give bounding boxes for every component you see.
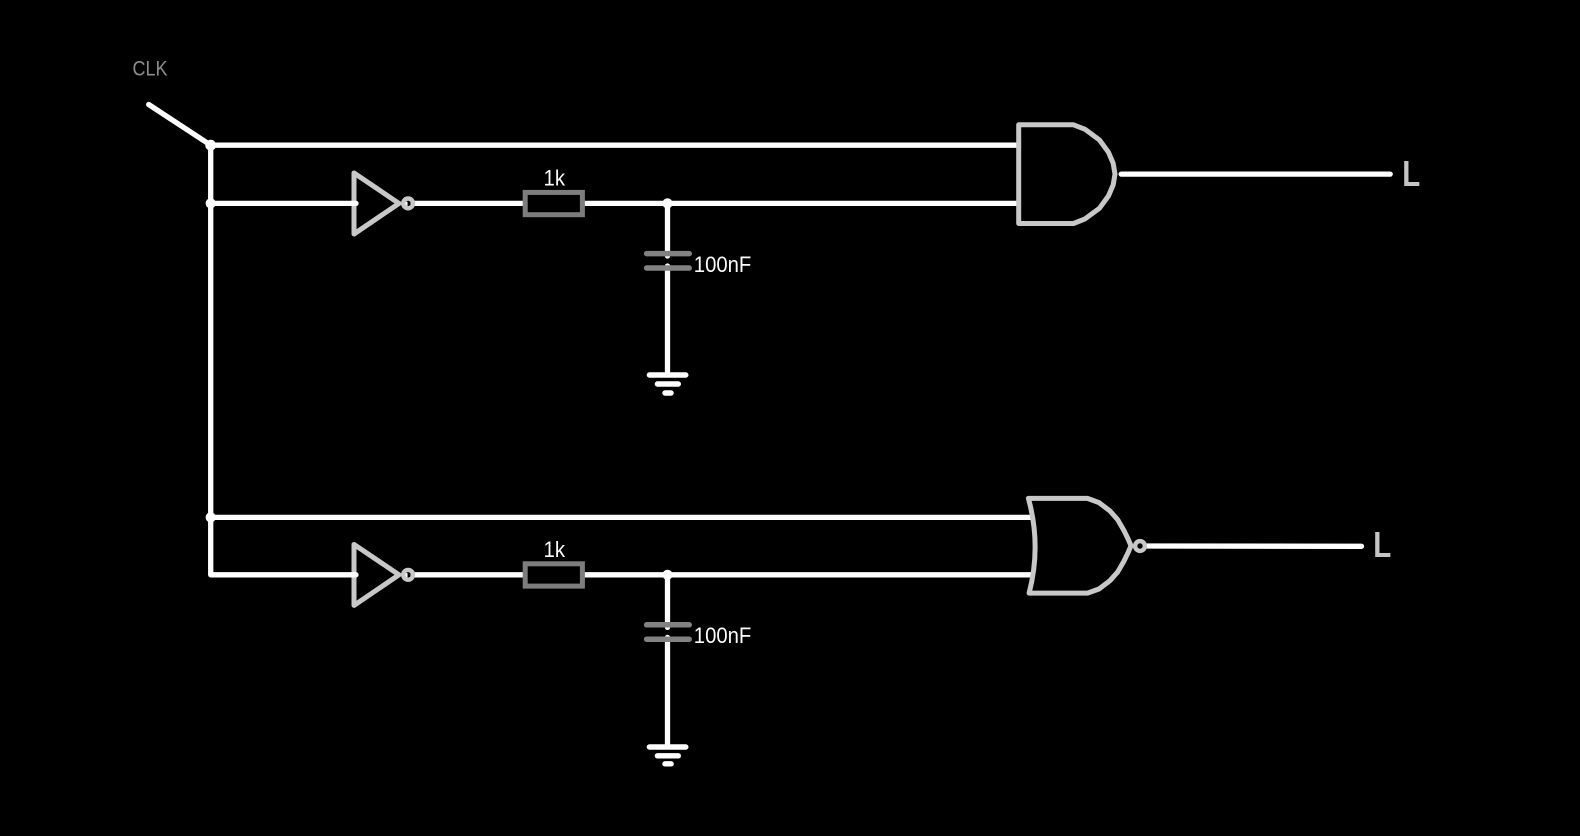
svg-text:100nF: 100nF: [694, 623, 752, 648]
wire: AND output to L: [1121, 171, 1390, 176]
label L (bottom output): [1373, 524, 1391, 565]
svg-text:L: L: [1373, 524, 1391, 565]
wire: cap C2 bottom lead to ground: [665, 637, 670, 746]
wire: vertical bus with corner into bottom inverter row: [211, 145, 356, 575]
junction node at bus/row3: [206, 512, 216, 522]
wire: NOR output to L: [1140, 543, 1362, 549]
wire stub under inverter U1 bubble: [402, 202, 408, 207]
wire: cap C2 top lead: [665, 575, 670, 628]
label C2 value 100nF: [694, 623, 752, 648]
wire: cap C1 top lead: [665, 203, 670, 256]
ground GND1: [649, 372, 685, 377]
junction node at CLK/row1: [205, 140, 216, 151]
wire: row2 left segment into inverter U1: [211, 201, 356, 206]
inverter U1 bubble: [403, 199, 413, 209]
svg-text:L: L: [1402, 153, 1420, 194]
wire stub under inverter U2 bubble: [402, 573, 408, 578]
ground GND2: [649, 744, 685, 749]
inverter U2 bubble: [403, 570, 413, 580]
resistor R2 1k: [525, 564, 582, 586]
label C1 value 100nF: [694, 252, 752, 277]
wire: row1 to AND gate top input: [211, 143, 1019, 148]
capacitor C2 plates 100nF: [647, 622, 690, 628]
label R1 value 1k: [544, 166, 566, 191]
junction node at bus/row2: [206, 198, 216, 208]
svg-text:1k: 1k: [544, 166, 566, 191]
NOR gate U4 output bubble: [1135, 541, 1145, 551]
svg-text:CLK: CLK: [133, 57, 169, 81]
node CLK label: [133, 57, 169, 81]
inverter U2 triangle: [354, 544, 399, 605]
wire: CLK switch diagonal: [149, 105, 211, 146]
wire: row4 right segment to NOR gate bottom input: [411, 572, 1037, 577]
svg-text:100nF: 100nF: [694, 252, 752, 277]
wire: cap C1 bottom lead to ground: [665, 266, 670, 374]
inverter U1 triangle: [354, 173, 399, 234]
resistor R1 1k: [525, 192, 582, 214]
junction node RC1: [662, 198, 672, 208]
svg-text:1k: 1k: [544, 537, 566, 562]
label R2 value 1k: [544, 537, 566, 562]
wire: row3 to NOR gate top input: [211, 515, 1036, 520]
AND gate U3: [1019, 125, 1115, 224]
capacitor C1 plates 100nF: [647, 251, 690, 257]
NOR gate U4: [1028, 498, 1131, 593]
junction node RC2: [662, 570, 672, 580]
label L (top output): [1402, 153, 1420, 194]
wire: row2 right segment to AND gate bottom input: [411, 201, 1020, 206]
